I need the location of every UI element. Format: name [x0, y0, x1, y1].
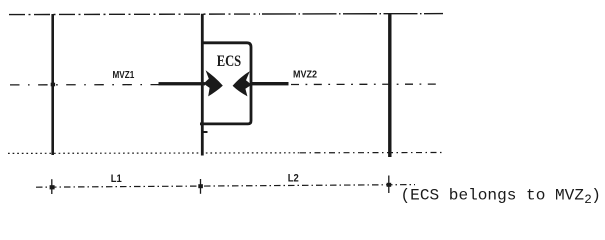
dimension tick T3 blob — [387, 183, 392, 187]
vertical line V3 — [388, 14, 391, 157]
svg-text:MVZ1: MVZ1 — [113, 70, 135, 81]
svg-text:(ECS belongs to MVZ: (ECS belongs to MVZ — [401, 186, 585, 204]
right arrow tail — [251, 82, 289, 85]
svg-text:ECS: ECS — [217, 53, 242, 70]
dimension tick T2 vertical — [200, 179, 202, 194]
box bottom stub artifact — [202, 131, 208, 133]
right arrow head — [233, 71, 252, 96]
dimension tick T3 vertical — [388, 176, 390, 194]
dimension line — [36, 185, 415, 188]
dimension tick T1 vertical — [51, 179, 53, 194]
left arrow tail — [159, 82, 206, 85]
mid centerline left segment — [10, 84, 159, 86]
left arrow head — [204, 70, 223, 96]
top boundary dash-dot line left part — [9, 13, 260, 16]
dimension tick T2 blob — [198, 184, 203, 188]
svg-text:): ) — [591, 186, 601, 204]
dimension tick T1 blob — [50, 185, 55, 189]
vertical line V1 — [51, 14, 54, 155]
svg-text:L2: L2 — [288, 172, 299, 184]
ECS box outline — [200, 43, 251, 124]
svg-text:L1: L1 — [111, 173, 122, 185]
top boundary dash-dot line right part — [262, 13, 443, 15]
bottom boundary dotted line left part — [8, 152, 300, 155]
svg-text:MVZ2: MVZ2 — [293, 70, 317, 81]
vertical line V2 — [201, 14, 204, 156]
bottom boundary dotted line right part — [300, 152, 444, 154]
mid centerline right segment — [291, 83, 441, 85]
centerline cross blob — [51, 83, 55, 87]
